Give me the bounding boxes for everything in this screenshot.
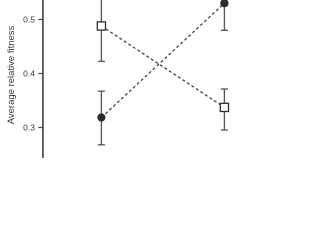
svg-text:0.5: 0.5 [23, 15, 35, 25]
svg-text:0.4: 0.4 [23, 69, 35, 79]
svg-text:0.3: 0.3 [23, 123, 35, 133]
svg-text:Average relative fitness: Average relative fitness [6, 25, 17, 124]
